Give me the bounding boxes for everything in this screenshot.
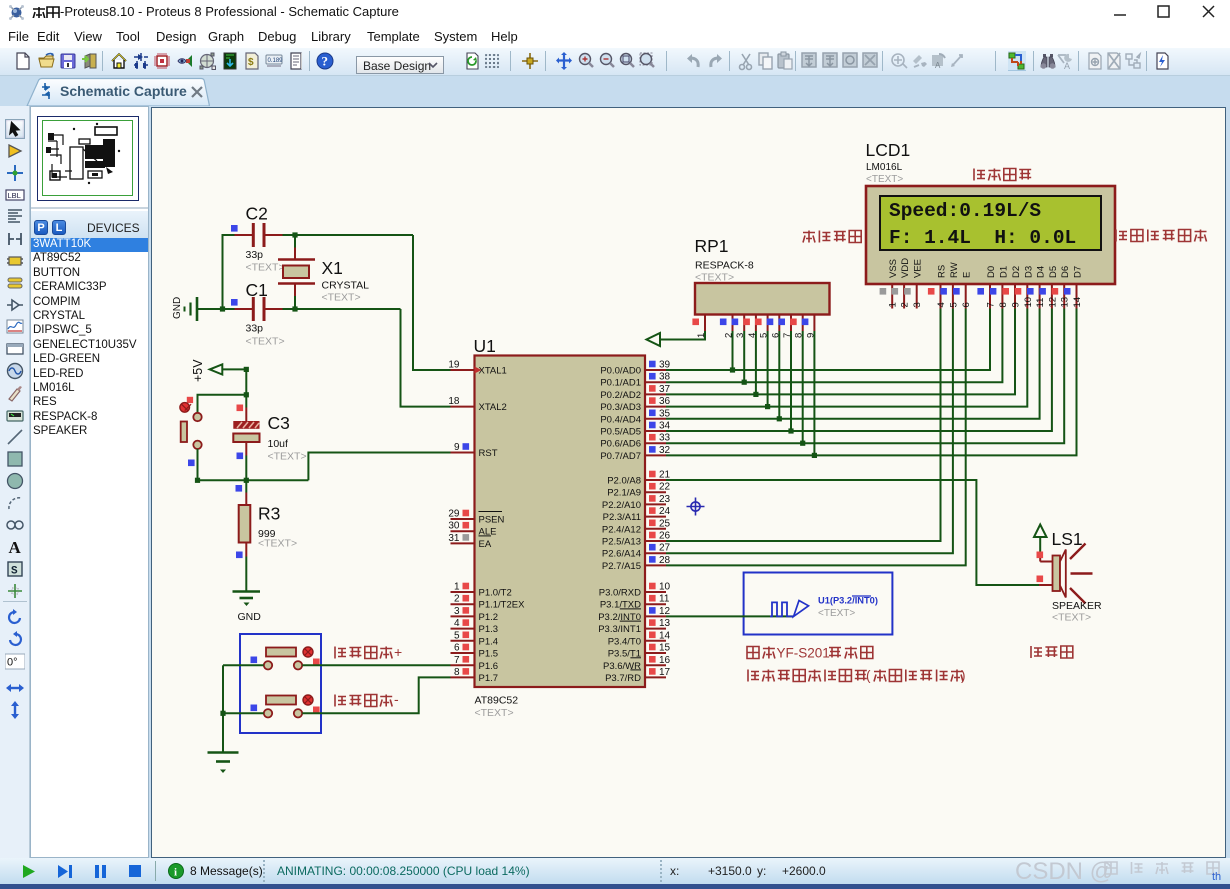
svg-text:D5: D5 bbox=[1048, 266, 1059, 278]
pushbutton reset bbox=[187, 397, 193, 403]
svg-text:3: 3 bbox=[912, 302, 923, 307]
svg-text:12: 12 bbox=[1047, 297, 1058, 308]
svg-text:P1.5: P1.5 bbox=[479, 649, 499, 660]
svg-text:9: 9 bbox=[454, 442, 460, 453]
svg-text:RS: RS bbox=[937, 265, 948, 278]
svg-text:25: 25 bbox=[659, 518, 671, 529]
svg-text:+5V: +5V bbox=[191, 359, 205, 382]
svg-text:P1.0/T2: P1.0/T2 bbox=[479, 588, 512, 599]
svg-text:26: 26 bbox=[659, 531, 671, 542]
svg-text:10: 10 bbox=[1023, 297, 1034, 308]
svg-text:EA: EA bbox=[479, 539, 492, 550]
svg-text:37: 37 bbox=[659, 384, 671, 395]
svg-text:31: 31 bbox=[448, 533, 460, 544]
svg-text:29: 29 bbox=[448, 509, 460, 520]
svg-text:32: 32 bbox=[659, 445, 671, 456]
svg-text:D2: D2 bbox=[1011, 266, 1022, 278]
svg-text:P1.2: P1.2 bbox=[479, 612, 499, 623]
pulse generator DCLOCK symbol bbox=[770, 602, 794, 616]
label speed display (hanzi) bbox=[974, 169, 1031, 181]
wires RP1 pins 2-9 down to P0 bus bbox=[732, 331, 734, 370]
svg-text:D1: D1 bbox=[998, 266, 1009, 278]
svg-text:33p: 33p bbox=[246, 249, 264, 261]
svg-text:P0.6/AD6: P0.6/AD6 bbox=[600, 439, 641, 450]
svg-text:?: ? bbox=[321, 54, 328, 69]
svg-text:$: $ bbox=[248, 57, 254, 68]
svg-text:P1.7: P1.7 bbox=[479, 673, 499, 684]
svg-text:RST: RST bbox=[479, 448, 498, 459]
svg-text:19: 19 bbox=[448, 360, 460, 371]
svg-text:13: 13 bbox=[1060, 297, 1071, 308]
svg-text:VSS: VSS bbox=[888, 259, 899, 278]
svg-text:24: 24 bbox=[659, 506, 671, 517]
svg-text:38: 38 bbox=[659, 372, 671, 383]
svg-text:P0.7/AD7: P0.7/AD7 bbox=[600, 451, 641, 462]
capacitor C3 10uf electrolytic bbox=[237, 405, 244, 412]
svg-text:P2.6/A14: P2.6/A14 bbox=[602, 549, 641, 560]
svg-text:4: 4 bbox=[936, 302, 947, 307]
svg-text:3: 3 bbox=[454, 606, 460, 617]
svg-text:13: 13 bbox=[659, 618, 671, 629]
svg-text:6: 6 bbox=[454, 643, 460, 654]
U1 right pins bbox=[645, 369, 666, 371]
svg-text:D6: D6 bbox=[1060, 266, 1071, 278]
wire P2.7 to LCD E bbox=[666, 309, 966, 566]
svg-text:<TEXT>: <TEXT> bbox=[322, 292, 361, 304]
svg-text:1: 1 bbox=[454, 582, 460, 593]
IC U1 AT89C52 body bbox=[475, 356, 646, 688]
wire P3.2/INT0 to generator bbox=[666, 615, 794, 617]
svg-text:16: 16 bbox=[659, 655, 671, 666]
svg-text:6: 6 bbox=[961, 302, 972, 307]
svg-text:-: - bbox=[394, 691, 399, 707]
svg-text:P1.1/T2EX: P1.1/T2EX bbox=[479, 600, 526, 611]
svg-text:P3.7/RD: P3.7/RD bbox=[605, 673, 641, 684]
wire to XTAL1 pin bbox=[413, 235, 451, 370]
svg-text:<TEXT>: <TEXT> bbox=[246, 336, 285, 348]
svg-text:CRYSTAL: CRYSTAL bbox=[322, 280, 370, 292]
label frequency note line2 (hanzi) bbox=[748, 670, 867, 682]
ground symbol (left of C1) bbox=[196, 297, 199, 321]
resistor R3 999 bbox=[236, 485, 243, 492]
svg-text:P2.5/A13: P2.5/A13 bbox=[602, 537, 641, 548]
wire P0.3 to LCD D3 bbox=[666, 309, 1027, 407]
svg-text:P2.2/A10: P2.2/A10 bbox=[602, 500, 641, 511]
RP1 pin 2 bbox=[732, 315, 734, 332]
RP1 pin 5 bbox=[767, 315, 769, 332]
speaker LS1 bbox=[1037, 552, 1044, 559]
svg-text:A: A bbox=[935, 61, 941, 70]
svg-text:14: 14 bbox=[1072, 297, 1083, 308]
svg-text:35: 35 bbox=[659, 408, 671, 419]
svg-text:7: 7 bbox=[454, 655, 460, 666]
svg-text:P0.5/AD5: P0.5/AD5 bbox=[600, 427, 641, 438]
svg-text:18: 18 bbox=[448, 396, 460, 407]
label alarm threshold - (hanzi) bbox=[335, 695, 392, 707]
svg-text:39: 39 bbox=[659, 360, 671, 371]
svg-text:P2.7/A15: P2.7/A15 bbox=[602, 561, 641, 572]
resistor pack RP1 RESPACK-8 bbox=[695, 283, 830, 315]
wire P2.6 to LCD RW bbox=[666, 309, 953, 554]
RP1 pin 3 bbox=[743, 315, 745, 332]
svg-text:17: 17 bbox=[659, 667, 671, 678]
svg-text:P0.2/AD2: P0.2/AD2 bbox=[600, 390, 641, 401]
svg-text:Speed:0.19L/S: Speed:0.19L/S bbox=[889, 200, 1041, 222]
svg-text:+: + bbox=[394, 644, 402, 660]
svg-text:P3.0/RXD: P3.0/RXD bbox=[599, 588, 641, 599]
svg-text:GND: GND bbox=[238, 611, 262, 623]
label alarm threshold + (hanzi) bbox=[335, 647, 392, 659]
svg-text:10uf: 10uf bbox=[268, 438, 289, 450]
svg-text:23: 23 bbox=[659, 494, 671, 505]
svg-text:5: 5 bbox=[454, 630, 460, 641]
svg-text:P2.0/A8: P2.0/A8 bbox=[607, 476, 641, 487]
LCD LCD1 LM016L body bbox=[866, 186, 1115, 284]
svg-text:(: ( bbox=[866, 668, 871, 683]
RP1 pin 4 bbox=[755, 315, 757, 332]
wire P0.6 to LCD D6 bbox=[666, 309, 1064, 444]
svg-text:VDD: VDD bbox=[900, 258, 911, 278]
wire GND to C1 bbox=[198, 308, 235, 310]
svg-text:<TEXT>: <TEXT> bbox=[695, 272, 734, 284]
svg-text:U1(P3.2/INT0): U1(P3.2/INT0) bbox=[818, 596, 878, 606]
svg-text:): ) bbox=[961, 668, 966, 683]
svg-text:11: 11 bbox=[659, 594, 670, 605]
svg-text:RP1: RP1 bbox=[695, 236, 729, 256]
hidden defs: fake hanzi glyph symbols bbox=[0, 0, 1, 1]
svg-text:0.189: 0.189 bbox=[267, 58, 283, 64]
wire P0.4 to LCD D4 bbox=[666, 309, 1040, 419]
svg-text:XTAL1: XTAL1 bbox=[479, 366, 507, 377]
wire C2 right run bbox=[283, 234, 414, 236]
wire button left bbox=[223, 712, 264, 714]
svg-text:PSEN: PSEN bbox=[479, 515, 505, 526]
svg-text:P0.0/AD0: P0.0/AD0 bbox=[600, 366, 641, 377]
wire P0.2 to LCD D2 bbox=[666, 309, 1015, 395]
svg-text:P1.4: P1.4 bbox=[479, 636, 499, 647]
wire P0.1 to LCD D1 bbox=[666, 309, 1002, 383]
wire P2.5 to LCD RS bbox=[666, 309, 941, 542]
svg-text:12: 12 bbox=[659, 606, 671, 617]
wire to reset button bbox=[198, 395, 247, 413]
svg-text:GND: GND bbox=[172, 297, 183, 319]
capacitor C1 33p bbox=[231, 299, 238, 306]
svg-text:E: E bbox=[962, 272, 973, 278]
U1 left pins bbox=[451, 369, 475, 371]
RP1 pin 8 bbox=[802, 315, 804, 332]
mouse crosshair cursor bbox=[687, 498, 705, 516]
wire to RST pin bbox=[308, 453, 450, 481]
label alarm (hanzi) bbox=[1031, 646, 1073, 658]
svg-text:P0.3/AD3: P0.3/AD3 bbox=[600, 402, 641, 413]
svg-text:27: 27 bbox=[659, 543, 671, 554]
svg-text:<TEXT>: <TEXT> bbox=[475, 707, 514, 719]
svg-text:P1.3: P1.3 bbox=[479, 624, 499, 635]
svg-text:28: 28 bbox=[659, 555, 671, 566]
svg-text:i: i bbox=[174, 867, 177, 879]
svg-text:D7: D7 bbox=[1073, 266, 1084, 278]
button alarm-threshold-minus bbox=[266, 696, 296, 705]
wire buttons common to ground bbox=[222, 665, 224, 752]
svg-text:<TEXT>: <TEXT> bbox=[258, 538, 297, 550]
node X1 top junction bbox=[292, 232, 297, 237]
wire button left bbox=[223, 664, 264, 666]
svg-text:<TEXT>: <TEXT> bbox=[1052, 612, 1091, 624]
svg-text:33: 33 bbox=[659, 433, 671, 444]
wire button- to P1.7 bbox=[302, 677, 450, 713]
label flow alarm threshold (hanzi) bbox=[1116, 230, 1207, 242]
svg-text:8: 8 bbox=[998, 302, 1009, 307]
ground below R3 bbox=[233, 590, 261, 593]
node GND/C1/C2 junction bbox=[220, 306, 225, 311]
svg-text:D4: D4 bbox=[1036, 266, 1047, 278]
crystal X1 bbox=[278, 258, 315, 261]
svg-text:4: 4 bbox=[454, 618, 460, 629]
svg-text:9: 9 bbox=[1011, 302, 1022, 307]
wire P0.0 to LCD D0 bbox=[666, 309, 990, 371]
LCD screen bbox=[880, 196, 1101, 250]
power terminal +5V bbox=[210, 364, 223, 374]
svg-text:P2.3/A11: P2.3/A11 bbox=[603, 512, 641, 523]
RP1 pin 1 bbox=[704, 315, 706, 332]
svg-text:<TEXT>: <TEXT> bbox=[818, 608, 855, 619]
svg-text:P1.6: P1.6 bbox=[479, 661, 499, 672]
label total flow (hanzi) bbox=[803, 231, 861, 243]
svg-text:<TEXT>: <TEXT> bbox=[268, 451, 307, 463]
svg-text:14: 14 bbox=[659, 630, 671, 641]
RP1 pin 9 bbox=[813, 315, 815, 332]
label YF-S201 sensor note line1 (hanzi) bbox=[747, 647, 775, 659]
svg-text:A: A bbox=[9, 538, 22, 557]
svg-text:2: 2 bbox=[454, 594, 460, 605]
svg-text:AT89C52: AT89C52 bbox=[475, 695, 519, 707]
svg-text:33p: 33p bbox=[246, 323, 264, 335]
selection box (pulse generator) bbox=[744, 573, 893, 635]
svg-text:A: A bbox=[1064, 61, 1070, 71]
wire +5V bbox=[222, 368, 246, 370]
svg-text:D3: D3 bbox=[1023, 266, 1034, 278]
svg-text:X1: X1 bbox=[322, 258, 343, 278]
svg-text:1: 1 bbox=[888, 302, 899, 307]
svg-text:YF-S201: YF-S201 bbox=[777, 646, 830, 661]
svg-text:0°: 0° bbox=[7, 657, 18, 669]
svg-text:D0: D0 bbox=[986, 266, 997, 278]
power terminal (speaker) bbox=[1034, 525, 1047, 538]
svg-text:U1: U1 bbox=[474, 336, 496, 356]
svg-text:5: 5 bbox=[948, 302, 959, 307]
svg-text:<TEXT>: <TEXT> bbox=[246, 262, 285, 274]
svg-text:R3: R3 bbox=[258, 504, 280, 524]
wire button bottom bbox=[197, 449, 199, 480]
wire P0.7 to LCD D7 bbox=[666, 309, 1077, 456]
svg-text:LBL: LBL bbox=[8, 191, 21, 200]
RP1 pin 7 bbox=[790, 315, 792, 332]
svg-text:34: 34 bbox=[659, 421, 671, 432]
node reset-top junction bbox=[244, 392, 249, 397]
svg-text:VEE: VEE bbox=[913, 259, 924, 278]
svg-text:C3: C3 bbox=[268, 413, 290, 433]
svg-text:P2.4/A12: P2.4/A12 bbox=[602, 524, 641, 535]
wire P0.5 to LCD D5 bbox=[666, 309, 1052, 432]
svg-text:LS1: LS1 bbox=[1052, 529, 1083, 549]
button alarm-threshold-plus bbox=[266, 648, 296, 657]
RP1 pin 6 bbox=[778, 315, 780, 332]
selection box (threshold buttons) bbox=[240, 634, 321, 733]
svg-text:15: 15 bbox=[659, 643, 671, 654]
wire to XTAL2 pin bbox=[401, 309, 451, 407]
svg-text:SPEAKER: SPEAKER bbox=[1052, 600, 1102, 612]
svg-text:RW: RW bbox=[949, 262, 960, 278]
svg-text:P3.4/T0: P3.4/T0 bbox=[608, 636, 641, 647]
capacitor C2 33p bbox=[231, 225, 238, 232]
svg-text:XTAL2: XTAL2 bbox=[479, 402, 507, 413]
svg-text:LCD1: LCD1 bbox=[866, 140, 911, 160]
svg-text:P0.1/AD1: P0.1/AD1 bbox=[600, 378, 641, 389]
svg-text:F: 1.4L H: 0.0L: F: 1.4L H: 0.0L bbox=[889, 227, 1076, 249]
svg-text:LM016L: LM016L bbox=[866, 162, 903, 173]
ground below buttons bbox=[208, 751, 239, 754]
svg-text:P3.3/INT1: P3.3/INT1 bbox=[598, 624, 641, 635]
svg-text:C1: C1 bbox=[246, 280, 268, 300]
svg-text:P0.4/AD4: P0.4/AD4 bbox=[600, 414, 641, 425]
svg-text:21: 21 bbox=[659, 470, 671, 481]
node X1 bottom junction bbox=[292, 306, 297, 311]
svg-text:2: 2 bbox=[900, 302, 911, 307]
svg-text:11: 11 bbox=[1035, 298, 1046, 308]
svg-text:RESPACK-8: RESPACK-8 bbox=[695, 260, 754, 272]
wire P2.0 to speaker bbox=[666, 480, 1039, 585]
input terminal arrow (RP1 pin1) bbox=[660, 331, 705, 340]
svg-text:36: 36 bbox=[659, 396, 671, 407]
svg-text:30: 30 bbox=[448, 521, 460, 532]
svg-text:<TEXT>: <TEXT> bbox=[866, 174, 903, 185]
svg-text:10: 10 bbox=[659, 582, 671, 593]
svg-text:22: 22 bbox=[659, 482, 671, 493]
wire C1 right run bbox=[283, 308, 401, 310]
svg-text:C2: C2 bbox=[246, 204, 268, 224]
svg-text:P2.1/A9: P2.1/A9 bbox=[607, 488, 641, 499]
svg-text:7: 7 bbox=[986, 302, 997, 307]
svg-text:S: S bbox=[11, 566, 18, 578]
wire up to C2 bbox=[223, 235, 235, 309]
wire reset bottom rail bbox=[198, 479, 309, 481]
wire button+ to P1.6 bbox=[302, 664, 450, 666]
svg-text:8: 8 bbox=[454, 667, 460, 678]
U1 XTAL1 clock arrow bbox=[475, 367, 482, 374]
